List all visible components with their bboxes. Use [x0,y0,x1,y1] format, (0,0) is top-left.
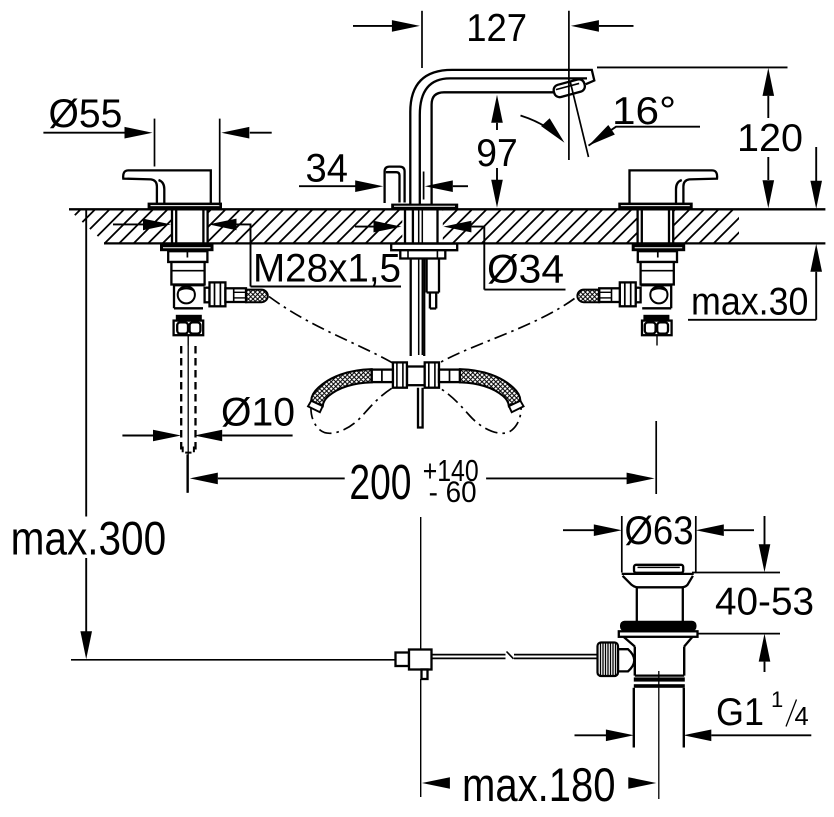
drain plug cap [634,565,683,573]
svg-text:max.30: max.30 [691,280,809,323]
drain flange joint bands [634,677,685,681]
countertop bottom surface line [104,242,825,244]
drain body taper [624,637,693,647]
dimension 40-53 [692,516,814,672]
valve ball [178,286,195,303]
label M28x1,5 [113,219,401,291]
dimension 200 +140 -60 [187,421,656,510]
centre threaded shank [405,210,438,243]
svg-text:G1: G1 [716,691,764,734]
valve lower section [174,285,205,309]
aerator [552,78,586,98]
braided hose left end [308,369,372,412]
max.300 reference line [71,659,396,661]
flexible hose 2 path (right valve to tee left port) [311,299,575,434]
handle base plate [148,203,222,209]
rod pivot fitting [396,653,410,667]
rubber seal ring [620,621,697,632]
centre base plate [391,204,458,209]
valve centreline [187,335,189,345]
svg-text:Ø34: Ø34 [487,248,564,292]
rod housing on drain body [618,649,634,671]
svg-text:M28x1,5: M28x1,5 [253,247,401,291]
dimension G1 1/4 [575,687,812,741]
tail pipe dashed end [183,447,194,453]
tail pipe centreline [187,346,189,493]
svg-text:120: 120 [737,117,803,160]
centre supply tube [411,259,425,357]
svg-text:1: 1 [771,687,783,712]
braided hose right end [460,369,524,412]
dimension 120 [597,67,803,208]
svg-text:- 60: - 60 [429,476,477,509]
valve washer flange [160,244,214,251]
dimension max.30 [688,147,822,323]
side port stem [205,288,210,303]
valve threaded shank [172,210,208,243]
dimension Ø10 [122,391,295,442]
centre locknut [400,250,445,258]
swivel reference tilted line [570,82,588,158]
drain flange [622,573,694,575]
tee right sleeve [439,370,460,383]
svg-text:200: 200 [349,456,411,510]
swivel arc arrow [521,116,562,140]
right valve below deck [577,210,685,345]
valve upper body [168,251,207,262]
valve bottom collar [176,315,202,321]
right handle [618,170,717,208]
vertical pop-up rod [420,517,422,650]
countertop top surface line [69,208,825,210]
outlet stub tube [427,259,439,309]
rod break mark [506,653,515,661]
side port hex nut [210,282,226,306]
braided hose stub [246,290,268,303]
svg-text:Ø55: Ø55 [49,92,123,136]
svg-text:max.180: max.180 [462,758,616,811]
svg-text:40-53: 40-53 [715,581,814,624]
tube below tee [418,388,423,428]
tail pipe dashed walls [180,346,182,450]
dimension Ø63 [563,509,754,573]
dimension max.180 [422,758,656,811]
tee body [407,367,425,386]
knurled knob [598,643,619,677]
valve main body [171,262,204,285]
tee left sleeve [372,370,393,383]
svg-text:Ø10: Ø10 [221,391,295,435]
countertop hatching [70,210,740,242]
svg-text:Ø63: Ø63 [625,509,694,553]
spout middle contour [420,78,587,207]
svg-text:4: 4 [795,703,809,731]
tee right nut [425,362,439,387]
centre washer flange [391,244,457,251]
dimension max.300 [11,211,167,660]
valve bottom nut [174,321,204,336]
flexible hose 1 path (left valve to tee right port) [269,297,521,434]
drain tailpiece [633,688,635,748]
dimension 34 [299,147,468,200]
spout outer contour [410,70,594,208]
svg-text:max.300: max.300 [11,512,167,565]
dimension 16 degrees [521,82,701,158]
drain centreline [658,671,660,799]
pop-up lift rod knob [385,167,405,203]
drain body [634,647,636,676]
side port nipple [225,288,246,302]
drain neck [636,587,638,621]
seal washer [619,631,698,637]
dimension 127 [353,7,634,160]
tee left nut [393,362,407,387]
svg-text:127: 127 [466,7,527,50]
svg-text:34: 34 [306,147,348,191]
dimension 97 [476,95,518,208]
horizontal rod [432,654,598,656]
label Ø34 [355,221,566,292]
handle lever [123,170,211,203]
spout inner/bottom contour [432,92,555,207]
dimension Ø55 [43,92,271,206]
lift rod through shank [418,210,420,355]
